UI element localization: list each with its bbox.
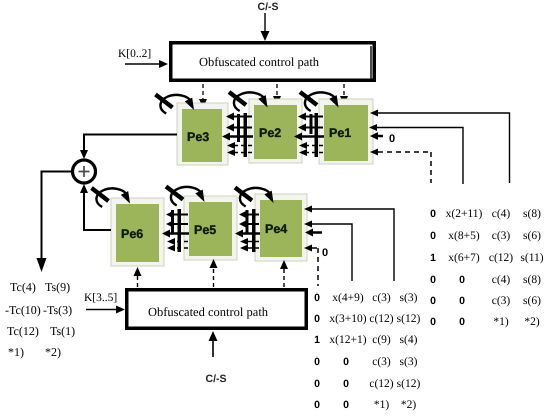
processing element Pe1 bbox=[319, 99, 373, 164]
bus wire Pe4 to Pe5 (4, dashed) bbox=[240, 238, 259, 245]
feedback wire 1 into Pe1 bbox=[370, 110, 510, 184]
svg-text:*1): *1) bbox=[8, 345, 24, 359]
bus wire Pe2 to Pe3 (4, dashed) bbox=[227, 142, 252, 149]
dashed control wire to Pe2 bbox=[273, 84, 281, 105]
processing element Pe3 bbox=[177, 103, 228, 165]
svg-text:Obfuscated control path: Obfuscated control path bbox=[199, 55, 320, 69]
svg-text:s(11): s(11) bbox=[520, 252, 543, 264]
svg-text:0: 0 bbox=[314, 378, 320, 390]
bus wire Pe4 to Pe5 (3) bbox=[235, 230, 260, 238]
bus wire Pe2 to Pe3 (3) bbox=[222, 133, 253, 141]
svg-text:0: 0 bbox=[459, 316, 465, 328]
rotate icon above Pe3 bbox=[156, 95, 195, 114]
bus wire Pe1 to Pe2 (3) bbox=[294, 133, 324, 141]
processing element Pe6 bbox=[111, 198, 164, 266]
svg-text:s(4): s(4) bbox=[400, 334, 418, 346]
pipeline bus bars between Pe2 and Pe1 bbox=[310, 113, 319, 157]
svg-text:C/-S: C/-S bbox=[206, 373, 227, 385]
pipeline bus bars between Pe3 and Pe2 bbox=[237, 113, 247, 157]
svg-text:x(12+1): x(12+1) bbox=[329, 334, 366, 346]
adder bbox=[73, 160, 96, 183]
svg-text:c(4): c(4) bbox=[492, 208, 511, 220]
svg-text:s(6): s(6) bbox=[523, 230, 541, 242]
processing element Pe2 bbox=[249, 99, 302, 163]
svg-text:c(3): c(3) bbox=[492, 295, 511, 307]
svg-text:C/-S: C/-S bbox=[258, 1, 279, 13]
svg-text:c(3): c(3) bbox=[372, 292, 391, 304]
processing element Pe5 bbox=[184, 196, 237, 260]
rotate icon above Pe5 bbox=[166, 187, 205, 206]
svg-text:0: 0 bbox=[314, 292, 320, 304]
svg-text:K[3..5]: K[3..5] bbox=[84, 292, 117, 304]
svg-text:s(8): s(8) bbox=[523, 208, 541, 220]
bus wire Pe5 to Pe6 (3) bbox=[162, 230, 189, 238]
coefficient table bottom, row 4 bbox=[314, 356, 418, 368]
bus wire Pe5 to Pe6 (1) bbox=[166, 211, 188, 219]
svg-text:c(3): c(3) bbox=[372, 356, 391, 368]
processing element Pe4 bbox=[255, 194, 307, 261]
svg-text:c(12): c(12) bbox=[369, 378, 393, 390]
svg-text:s(8): s(8) bbox=[523, 274, 541, 286]
obfuscated control path box (top) bbox=[169, 41, 376, 82]
wire C/-S up into bottom control box bbox=[209, 331, 218, 357]
bus wire Pe5 to Pe6 (5, dashed) bbox=[167, 245, 188, 252]
svg-text:Pe1: Pe1 bbox=[329, 126, 351, 140]
svg-text:s(12): s(12) bbox=[397, 313, 421, 325]
bus wire Pe1 to Pe2 (2) bbox=[298, 124, 323, 132]
svg-text:Tc(4): Tc(4) bbox=[10, 280, 36, 294]
svg-text:s(3): s(3) bbox=[400, 292, 418, 304]
pipeline bus bars between Pe5 and Pe4 bbox=[246, 209, 256, 252]
svg-text:c(9): c(9) bbox=[372, 334, 391, 346]
output wire from adder bbox=[37, 172, 73, 273]
svg-text:0: 0 bbox=[322, 247, 328, 259]
bus wire Pe4 to Pe5 (5, dashed) bbox=[240, 245, 259, 252]
coefficient table right, row 3 bbox=[430, 252, 544, 264]
bus wire Pe4 to Pe5 (2) bbox=[239, 220, 259, 228]
coefficient table right, row 5 bbox=[430, 295, 541, 307]
svg-text:0: 0 bbox=[430, 208, 436, 220]
svg-text:x(3+10): x(3+10) bbox=[329, 313, 366, 325]
svg-text:*2): *2) bbox=[524, 316, 540, 328]
svg-text:0: 0 bbox=[343, 356, 349, 368]
svg-text:0: 0 bbox=[343, 378, 349, 390]
coefficient table right, row 2 bbox=[430, 230, 541, 242]
wire K[0..2] into top control box bbox=[125, 60, 168, 68]
svg-text:c(4): c(4) bbox=[492, 274, 511, 286]
svg-text:*1): *1) bbox=[374, 399, 390, 411]
coefficient table right, row 1 bbox=[430, 208, 541, 220]
svg-text:Pe3: Pe3 bbox=[187, 130, 209, 144]
svg-text:Tc(12): Tc(12) bbox=[7, 324, 39, 338]
svg-text:0: 0 bbox=[459, 295, 465, 307]
svg-text:x(4+9): x(4+9) bbox=[332, 292, 364, 304]
dashed control wire to Pe1 bbox=[340, 84, 348, 105]
rotate icon above Pe6 bbox=[92, 188, 131, 207]
coefficient table bottom, row 5 bbox=[314, 378, 420, 390]
bus wire Pe4 to Pe5 (1) bbox=[239, 211, 259, 219]
svg-text:s(3): s(3) bbox=[400, 356, 418, 368]
wire Pe3 to adder bbox=[80, 135, 177, 160]
coefficient table bottom, row 2 bbox=[314, 313, 420, 325]
svg-text:Pe6: Pe6 bbox=[121, 227, 143, 241]
svg-text:0: 0 bbox=[430, 295, 436, 307]
svg-text:Obfuscated control path: Obfuscated control path bbox=[148, 305, 269, 319]
wire K[3..5] into bottom control box bbox=[86, 306, 125, 314]
svg-text:0: 0 bbox=[459, 274, 465, 286]
svg-text:s(12): s(12) bbox=[397, 378, 421, 390]
svg-text:c(3): c(3) bbox=[492, 230, 511, 242]
bus wire Pe2 to Pe3 (5, dashed) bbox=[227, 149, 252, 156]
bus wire Pe1 to Pe2 (1) bbox=[298, 113, 323, 121]
svg-text:s(6): s(6) bbox=[523, 295, 541, 307]
bus wire Pe2 to Pe3 (2) bbox=[226, 124, 252, 132]
dashed feedback wire into Pe1 bbox=[370, 149, 431, 184]
svg-text:0: 0 bbox=[314, 399, 320, 411]
svg-text:-Tc(10): -Tc(10) bbox=[5, 303, 41, 317]
dashed control wire up to Pe5 bbox=[210, 259, 218, 287]
dashed control wire up to Pe4 bbox=[280, 260, 288, 287]
bus wire Pe1 to Pe2 (5, dashed) bbox=[299, 149, 323, 156]
coefficient table bottom, row 6 bbox=[314, 399, 416, 411]
svg-text:Ts(1): Ts(1) bbox=[50, 324, 75, 338]
svg-text:Ts(9): Ts(9) bbox=[45, 280, 70, 294]
coefficient table right, row 6 bbox=[430, 316, 540, 328]
rotate icon above Pe1 bbox=[300, 92, 339, 111]
bus wire Pe5 to Pe6 (4, dashed) bbox=[167, 238, 188, 245]
coefficient table bottom, row 3 bbox=[314, 334, 418, 346]
bus wire Pe1 to Pe2 (4, dashed) bbox=[299, 142, 323, 149]
dashed feedback wire into Pe4 bbox=[304, 245, 318, 287]
svg-text:0: 0 bbox=[430, 274, 436, 286]
obfuscated control path box (bottom) bbox=[125, 288, 308, 330]
svg-text:0: 0 bbox=[430, 230, 436, 242]
constant 0 wire into Pe1 bbox=[370, 132, 383, 140]
coefficient table right, row 4 bbox=[430, 274, 541, 286]
svg-text:0: 0 bbox=[389, 133, 395, 145]
svg-text:-Ts(3): -Ts(3) bbox=[43, 303, 72, 317]
svg-text:1: 1 bbox=[430, 252, 436, 264]
svg-text:*2): *2) bbox=[45, 345, 61, 359]
svg-text:0: 0 bbox=[314, 313, 320, 325]
wire C/-S down into top control box bbox=[261, 13, 270, 41]
rotate icon above Pe4 bbox=[235, 188, 274, 207]
bus wire Pe5 to Pe6 (2) bbox=[166, 220, 188, 228]
wire Pe6 to adder bbox=[80, 184, 111, 230]
svg-text:x(8+5): x(8+5) bbox=[448, 230, 480, 242]
feedback wire 2 into Pe1 bbox=[369, 124, 463, 184]
svg-text:Pe5: Pe5 bbox=[194, 223, 216, 237]
svg-text:Pe2: Pe2 bbox=[259, 126, 281, 140]
svg-text:*2): *2) bbox=[401, 399, 417, 411]
svg-text:1: 1 bbox=[314, 334, 320, 346]
bus wire Pe2 to Pe3 (1) bbox=[226, 113, 252, 121]
constant 0 wire into Pe4 bbox=[305, 229, 322, 237]
feedback wire 2 into Pe4 bbox=[304, 221, 352, 282]
svg-text:0: 0 bbox=[430, 316, 436, 328]
pipeline bus bars between Pe6 and Pe5 bbox=[171, 209, 181, 252]
dashed control wire to Pe3 bbox=[199, 84, 207, 108]
svg-text:0: 0 bbox=[343, 399, 349, 411]
feedback wire 1 into Pe4 bbox=[304, 206, 394, 282]
dashed control wire up to Pe6 bbox=[134, 267, 142, 287]
svg-text:Pe4: Pe4 bbox=[265, 222, 287, 236]
svg-text:c(12): c(12) bbox=[489, 252, 513, 264]
svg-text:x(6+7): x(6+7) bbox=[448, 252, 480, 264]
coefficient table bottom, row 1 bbox=[314, 292, 418, 304]
svg-text:c(12): c(12) bbox=[369, 313, 393, 325]
svg-text:*1): *1) bbox=[493, 316, 509, 328]
svg-text:0: 0 bbox=[314, 356, 320, 368]
svg-text:K[0..2]: K[0..2] bbox=[118, 48, 151, 60]
svg-text:x(2+11): x(2+11) bbox=[446, 208, 483, 220]
rotate icon above Pe2 bbox=[229, 92, 268, 111]
